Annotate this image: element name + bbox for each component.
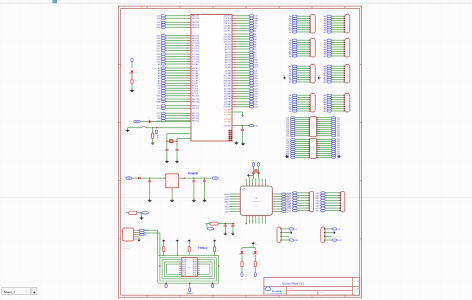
svg-text:D26: D26	[254, 85, 257, 87]
svg-text:D52: D52	[288, 211, 292, 213]
svg-text:D34: D34	[254, 96, 257, 98]
svg-text:D2: D2	[254, 55, 256, 57]
svg-text:D46: D46	[316, 203, 320, 205]
svg-text:D38: D38	[316, 193, 320, 195]
svg-text:D48: D48	[288, 206, 292, 208]
svg-text:D34: D34	[157, 38, 160, 40]
svg-text:D22: D22	[254, 80, 257, 82]
svg-text:D44: D44	[157, 50, 160, 52]
svg-text:D28: D28	[157, 25, 160, 27]
svg-text:D12: D12	[254, 73, 257, 75]
svg-text:RX0: RX0	[254, 60, 258, 62]
svg-text:D52: D52	[316, 211, 320, 213]
svg-text:RX0: RX0	[157, 96, 161, 98]
svg-text:D11: D11	[254, 70, 257, 72]
svg-text:D40: D40	[316, 195, 320, 197]
svg-text:D48: D48	[254, 21, 257, 23]
svg-text:D36: D36	[157, 40, 160, 42]
svg-text:D38: D38	[254, 102, 257, 104]
svg-text:D28: D28	[254, 89, 257, 91]
svg-text:D5: D5	[254, 49, 256, 51]
svg-text:D40: D40	[288, 195, 292, 197]
svg-text:D40: D40	[254, 104, 257, 106]
svg-text:D50: D50	[254, 23, 257, 25]
svg-text:D5: D5	[158, 86, 160, 88]
svg-text:D26: D26	[157, 22, 160, 24]
svg-text:SCL: SCL	[254, 67, 258, 69]
svg-text:D50: D50	[288, 208, 292, 210]
svg-text:D40: D40	[157, 45, 160, 47]
svg-text:D13: D13	[157, 116, 160, 118]
svg-text:D30: D30	[254, 91, 257, 93]
svg-text:D52: D52	[254, 26, 257, 28]
svg-text:D6: D6	[158, 88, 160, 90]
svg-text:SCL: SCL	[157, 106, 161, 108]
svg-text:D44: D44	[254, 126, 257, 128]
svg-text:D24: D24	[254, 83, 257, 85]
svg-text:D52: D52	[157, 61, 160, 63]
svg-text:D12: D12	[157, 113, 160, 115]
svg-text:D46: D46	[288, 203, 292, 205]
svg-text:D46: D46	[254, 18, 257, 20]
svg-text:D2: D2	[158, 91, 160, 93]
svg-text:D38: D38	[157, 43, 160, 45]
svg-text:D42: D42	[288, 198, 292, 200]
svg-text:D36: D36	[254, 99, 257, 101]
svg-text:D13: D13	[254, 75, 257, 77]
svg-text:D50: D50	[316, 208, 320, 210]
svg-text:TX0: TX0	[254, 62, 257, 64]
svg-text:D30: D30	[157, 27, 160, 29]
svg-text:D46: D46	[157, 54, 160, 56]
svg-text:Sheet_1: Sheet_1	[4, 290, 16, 294]
svg-text:D48: D48	[157, 56, 160, 58]
svg-text:D32: D32	[254, 94, 257, 96]
svg-text:D22: D22	[157, 16, 160, 18]
svg-text:D50: D50	[157, 59, 160, 61]
svg-text:D24: D24	[157, 18, 160, 20]
svg-text:D42: D42	[316, 198, 320, 200]
svg-text:D42: D42	[157, 48, 160, 50]
svg-text:D48: D48	[316, 206, 320, 208]
svg-text:D11: D11	[157, 108, 160, 110]
svg-text:D38: D38	[288, 193, 292, 195]
svg-text:D3: D3	[254, 57, 256, 59]
svg-text:D42: D42	[254, 107, 257, 109]
svg-text:D32: D32	[157, 35, 160, 37]
svg-text:D3: D3	[158, 93, 160, 95]
svg-text:D44: D44	[254, 16, 257, 18]
svg-text:TX0: TX0	[157, 99, 160, 101]
svg-text:D6: D6	[254, 52, 256, 54]
